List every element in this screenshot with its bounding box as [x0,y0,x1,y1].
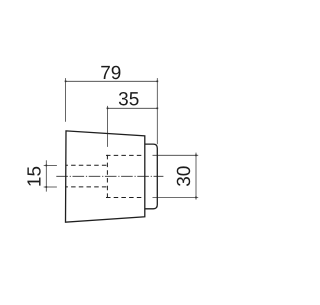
svg-text:15: 15 [25,166,46,187]
svg-text:35: 35 [118,89,139,110]
svg-text:30: 30 [174,166,195,187]
svg-text:79: 79 [100,63,121,84]
